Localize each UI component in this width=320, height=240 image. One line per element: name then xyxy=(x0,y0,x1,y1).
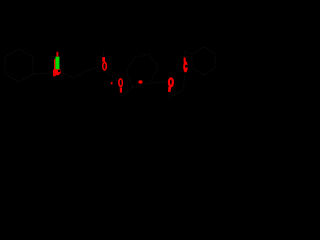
wire: red half-bond above O1 xyxy=(102,57,105,62)
wire: ester carbonyl linkage xyxy=(104,71,118,80)
atom label O1 (ester oxygen) xyxy=(102,61,107,70)
atom label Cl (green) with red O overlap: red tip above xyxy=(57,52,59,58)
wire: red half-bond below O3 xyxy=(168,87,172,92)
wire: bond O2 down to C xyxy=(121,88,122,97)
wire: bond O1 up to C xyxy=(103,50,105,61)
wire: bond O3 down to carbonyl C xyxy=(169,92,171,97)
wire: red half-bond above O4 xyxy=(184,58,186,63)
wire: bond to right ring xyxy=(185,51,193,54)
wire: chain blob to O1 xyxy=(60,67,99,78)
atom: red dot (oxygen dot) xyxy=(138,80,142,83)
atom label O2 (carbonyl oxygen) xyxy=(118,78,123,87)
atom label Cl: green core bar xyxy=(55,57,59,69)
wire: bond ring to O3 xyxy=(150,82,166,83)
wire: red half-bond speck left of O2 xyxy=(111,82,113,84)
atom label Cl: red left edge xyxy=(54,59,55,70)
wire: bond ring to Cl-carbon xyxy=(33,73,52,74)
atom label Cl: red bottom-left tail xyxy=(53,73,56,76)
atom label Cl: red bottom blob xyxy=(53,68,61,76)
ring: cyclohexane (right) xyxy=(192,47,215,75)
wire: bond C up to O4 xyxy=(183,73,185,90)
wire: red half-bond below O2 xyxy=(120,88,122,93)
ring: middle ring around dot-O xyxy=(126,54,158,87)
wire: bond C to middle ring xyxy=(122,87,133,96)
atom label O4: black notch xyxy=(185,65,188,68)
atom label O4 (carbonyl oxygen) xyxy=(183,61,188,73)
wire: bond carbonyl to C right xyxy=(170,90,183,97)
wire: bond O4 up to CH xyxy=(184,52,186,57)
atom label O3 (ester oxygen) xyxy=(168,77,174,87)
ring: cyclohexane (left), faint carbon bonds xyxy=(5,49,33,82)
atom label Cl: black notch in bottom blob xyxy=(58,70,61,72)
